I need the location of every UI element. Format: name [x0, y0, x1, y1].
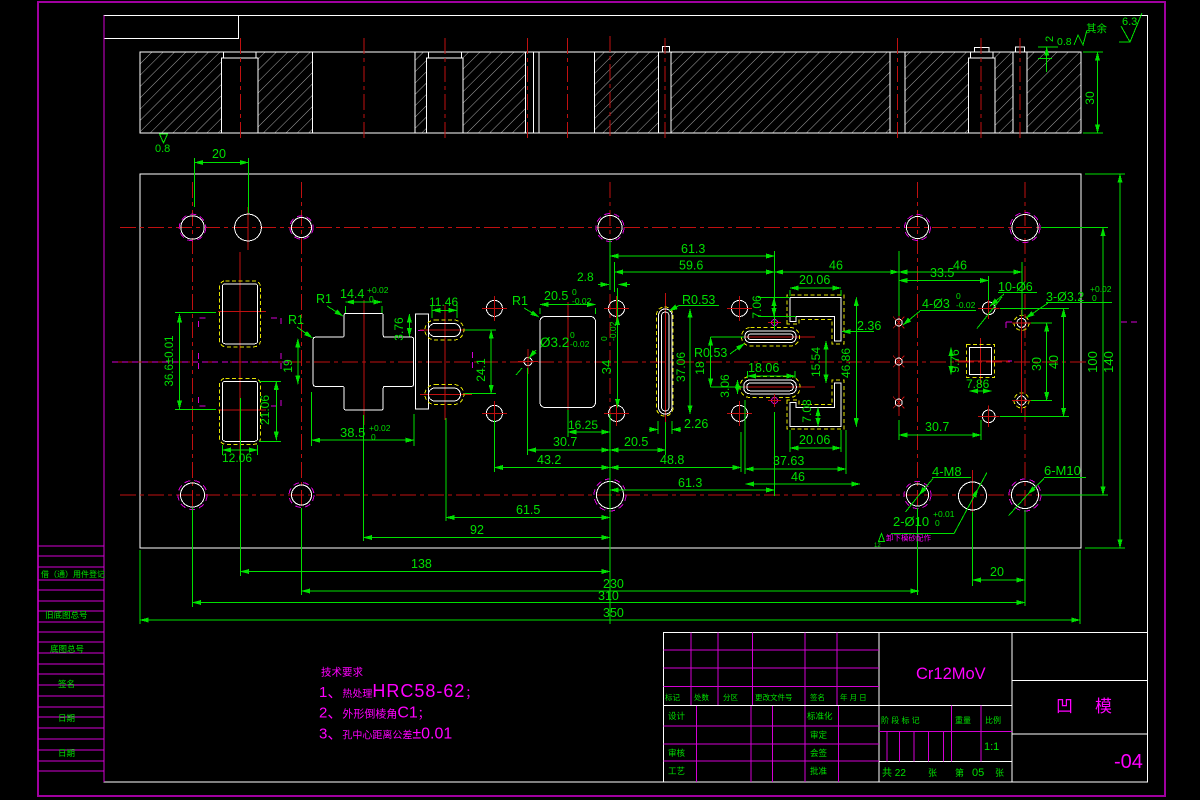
svg-text:R1: R1 — [316, 292, 332, 306]
dim 350 — [140, 606, 1080, 620]
svg-text:4-M8: 4-M8 — [932, 464, 962, 479]
dim 30 right col — [1030, 323, 1052, 401]
dim 30.7 right — [899, 420, 981, 440]
svg-text:Cr12MoV: Cr12MoV — [916, 665, 986, 683]
cross punch opening — [313, 313, 413, 410]
svg-text:6.3: 6.3 — [1122, 16, 1137, 28]
magenta phantom overlay on centerline left — [112, 361, 290, 363]
svg-text:61.3: 61.3 — [678, 476, 702, 490]
svg-text:9.76: 9.76 — [948, 349, 962, 373]
punch channel A (x240) — [222, 52, 259, 133]
svg-text:技术要求: 技术要求 — [321, 666, 363, 679]
left column vertical rule — [103, 16, 105, 783]
dim R0.53 mid — [694, 344, 745, 361]
punch channel G (x897) — [890, 52, 905, 133]
hatched regions — [140, 52, 1081, 133]
dim 16.25 — [568, 410, 610, 437]
vertical bar feature — [415, 314, 428, 409]
svg-text:签名: 签名 — [810, 692, 825, 702]
C bracket top — [787, 295, 844, 344]
small circle row C5 — [604, 401, 629, 426]
callout 3-Ø3.2 — [1026, 284, 1112, 318]
dim 14.4 +0.02 — [340, 285, 389, 313]
dim 7.86 — [966, 377, 992, 391]
callout 10-Ø6 — [990, 280, 1037, 306]
small circle row C6 — [727, 401, 752, 426]
svg-text:16.25: 16.25 — [568, 418, 598, 432]
svg-text:4-Ø3: 4-Ø3 — [922, 297, 950, 311]
svg-text:凹模: 凹模 — [1056, 697, 1134, 716]
dim 138 — [241, 557, 611, 572]
dim 230 — [302, 577, 920, 591]
svg-text:比例: 比例 — [985, 715, 1001, 725]
dim 7.08 — [800, 399, 818, 426]
svg-text:12.06: 12.06 — [222, 451, 252, 465]
svg-text:0: 0 — [371, 432, 376, 442]
dim 310 — [193, 589, 1026, 603]
svg-text:2.26: 2.26 — [684, 417, 708, 431]
svg-text:33.5: 33.5 — [930, 266, 954, 280]
svg-text:-04: -04 — [1114, 751, 1143, 773]
svg-text:R0.53: R0.53 — [694, 346, 727, 360]
label Ø3.2 0/-0.02 with leader — [516, 330, 590, 375]
hole B2 (301.5,495) — [289, 483, 314, 508]
svg-text:分区: 分区 — [723, 693, 738, 702]
svg-text:30.7: 30.7 — [925, 420, 949, 434]
svg-text:底图总号: 底图总号 — [50, 644, 84, 654]
G_TITLE : title block — [663, 633, 1147, 783]
hole B4 (917.5,495) — [904, 482, 931, 509]
small circle row C3 — [727, 296, 752, 321]
punch channel F (x665) with top plug — [659, 47, 672, 133]
svg-text:标记: 标记 — [665, 692, 680, 702]
hole F1 (1021.5,322.9) — [1012, 313, 1031, 332]
svg-text:24.1: 24.1 — [474, 358, 488, 382]
dim 2 top right — [1038, 36, 1058, 72]
svg-text:20: 20 — [212, 147, 226, 161]
dim 12.06 — [222, 445, 258, 465]
plan outline — [140, 174, 1081, 548]
tall slot — [657, 307, 674, 416]
dim 24.1 — [465, 330, 496, 393]
dim 61.5 — [446, 503, 610, 518]
dim 2.36 — [842, 319, 881, 333]
dim 36.6±0.01 — [164, 313, 216, 410]
svg-text:Ø3.2: Ø3.2 — [540, 335, 569, 350]
svg-text:签名: 签名 — [58, 679, 75, 689]
svg-text:40: 40 — [1047, 355, 1061, 369]
dim 48.8 — [610, 432, 741, 472]
dim 46.86 — [839, 298, 856, 427]
callout 2-Ø10 — [891, 473, 987, 534]
small circle row C2 — [604, 296, 629, 321]
hole A5 (917.5,225) — [905, 215, 931, 241]
svg-text:46.86: 46.86 — [839, 348, 853, 378]
G_LEFTCOL : left column boxes — [38, 16, 105, 783]
svg-text:61.5: 61.5 — [516, 503, 540, 517]
svg-text:30: 30 — [1030, 357, 1044, 371]
dim 30 right of section — [1083, 52, 1103, 133]
svg-text:阶 段 标 记: 阶 段 标 记 — [881, 715, 920, 725]
svg-text:处数: 处数 — [694, 692, 709, 702]
svg-text:旧底图总号: 旧底图总号 — [45, 610, 88, 620]
note 卸下模砂配作 — [874, 533, 931, 550]
dim 18.06 — [748, 361, 796, 378]
dim 100 — [1041, 228, 1108, 496]
svg-text:46: 46 — [829, 259, 843, 273]
svg-text:7.86: 7.86 — [966, 377, 990, 391]
svg-text:批准: 批准 — [810, 766, 828, 776]
svg-text:37.06: 37.06 — [674, 352, 688, 382]
svg-text:20.5: 20.5 — [624, 435, 648, 449]
svg-text:350: 350 — [603, 606, 624, 620]
left slot L2 — [220, 378, 261, 444]
oval slot O2 — [425, 385, 464, 405]
bottom row centerline — [120, 494, 1090, 496]
diamond hole D3 — [893, 397, 905, 409]
title block outline — [663, 633, 1147, 783]
callout 4-M8 — [906, 464, 972, 512]
svg-text:92: 92 — [470, 523, 484, 537]
dim 61.3 bottom — [610, 412, 775, 496]
svg-text:30: 30 — [1083, 91, 1097, 105]
svg-text:20.06: 20.06 — [799, 273, 830, 287]
center rectangle punch — [540, 317, 596, 408]
hole F2 (1021.5,400.5) — [1012, 391, 1031, 410]
main vertical dividers — [879, 633, 1012, 783]
svg-text:34: 34 — [599, 360, 614, 374]
svg-text:日期: 日期 — [58, 713, 75, 723]
dim 140 — [1085, 174, 1125, 548]
top row centerline — [120, 227, 1090, 229]
svg-text:30.7: 30.7 — [553, 435, 577, 449]
slot row centerlines — [218, 312, 1008, 411]
dim 43.2 — [494, 420, 610, 472]
svg-text:0.8: 0.8 — [155, 143, 170, 155]
dim 33.5 — [899, 266, 989, 300]
roughness 0.8 top right — [1057, 30, 1087, 48]
svg-text:3.06: 3.06 — [718, 374, 732, 398]
svg-text:更改文件号: 更改文件号 — [755, 692, 793, 702]
dim 61.3 top — [610, 242, 775, 256]
dim 11.46 — [429, 295, 458, 318]
roughness 0.8 below left — [155, 134, 170, 155]
svg-text:2.8: 2.8 — [577, 270, 594, 284]
svg-text:138: 138 — [411, 557, 432, 571]
hole A6 (1025,225) — [1010, 213, 1040, 243]
horizontal slot S2 — [740, 377, 800, 398]
C bracket bottom — [787, 380, 844, 429]
cavity channel E — [594, 52, 596, 133]
svg-text:其余: 其余 — [1086, 22, 1108, 35]
hole B5 (972.5,496) — [959, 482, 987, 510]
dim 34 0/-0.02 — [599, 288, 618, 407]
diamond hole D2 — [893, 356, 905, 368]
svg-text:05: 05 — [972, 767, 984, 779]
punch channel H (x981) with neck — [969, 48, 996, 134]
roughness 6.3 symbol — [1119, 13, 1142, 42]
svg-text:标准化: 标准化 — [807, 711, 833, 721]
hole B3 (610,495) — [594, 479, 626, 511]
svg-text:会签: 会签 — [810, 748, 828, 758]
svg-text:18.06: 18.06 — [748, 361, 779, 375]
dim 46 top first — [775, 251, 899, 330]
hole column centerlines — [193, 182, 1026, 540]
small rect punch right — [967, 345, 995, 378]
horizontal slot S1 — [742, 328, 800, 347]
dim 20.06 top — [790, 273, 841, 296]
dim 38.5 +0.02 — [312, 392, 415, 446]
svg-text:-0.02: -0.02 — [572, 296, 592, 306]
dim 9.76 — [948, 348, 962, 375]
svg-text:37.63: 37.63 — [773, 454, 804, 468]
svg-text:10-Ø6: 10-Ø6 — [998, 280, 1033, 294]
G_SECTION : top sectional view — [140, 13, 1142, 155]
dim 21.06 — [258, 381, 281, 441]
svg-text:R1: R1 — [512, 294, 528, 308]
svg-text:310: 310 — [598, 589, 619, 603]
label R1 c — [512, 294, 539, 317]
svg-text:R0.53: R0.53 — [682, 293, 715, 307]
middle dividers — [879, 705, 1012, 761]
small circle row C1 — [482, 296, 507, 321]
tiny circle T2 — [768, 394, 781, 407]
dim R0.53 top — [669, 293, 719, 311]
dim 20.5 0/-0.02 — [540, 287, 596, 314]
dim 15.54 — [809, 341, 826, 383]
dim 92 — [364, 523, 611, 538]
svg-text:设计: 设计 — [668, 711, 686, 721]
svg-text:3.76: 3.76 — [392, 317, 406, 341]
dim 2.8 — [577, 240, 630, 292]
svg-text:11.46: 11.46 — [429, 295, 458, 309]
svg-text:1:1: 1:1 — [984, 741, 999, 753]
dim 2.26 — [649, 417, 708, 434]
svg-text:36.6±0.01: 36.6±0.01 — [164, 335, 176, 386]
svg-text:46: 46 — [791, 470, 805, 484]
svg-text:100: 100 — [1085, 351, 1100, 373]
dim 37.63 — [745, 400, 846, 474]
svg-text:19: 19 — [281, 359, 295, 373]
dim 46 top second — [899, 259, 1022, 317]
svg-text:21.06: 21.06 — [258, 395, 272, 425]
svg-text:140: 140 — [1101, 351, 1116, 373]
svg-text:日期: 日期 — [58, 748, 75, 758]
G_DIMS : green dimensions — [140, 147, 1125, 624]
svg-text:张: 张 — [928, 768, 937, 778]
dim 20 bottom right — [973, 512, 1026, 586]
dim 59.6 — [615, 259, 775, 273]
hole E1 (988.7,308.3) — [978, 298, 1000, 320]
dim 30.7 — [528, 368, 611, 455]
svg-text:7.06: 7.06 — [750, 295, 764, 319]
punch channel C (x445) — [427, 52, 464, 133]
right column dividers — [1012, 681, 1148, 734]
svg-text:43.2: 43.2 — [537, 453, 561, 467]
dim 19 — [281, 339, 298, 384]
dim 3.76 — [392, 314, 409, 341]
dim 18 — [693, 337, 744, 387]
svg-text:卸下模砂配作: 卸下模砂配作 — [886, 533, 931, 543]
svg-text:7.08: 7.08 — [800, 399, 814, 423]
cavity channel B — [313, 52, 416, 133]
small circle row C4 — [482, 401, 507, 426]
oval slot O1 — [425, 320, 464, 340]
svg-text:年 月 日: 年 月 日 — [840, 692, 867, 702]
dim 20.5 right — [610, 422, 666, 455]
svg-text:工艺: 工艺 — [668, 766, 685, 776]
svg-text:6-M10: 6-M10 — [1044, 463, 1081, 478]
hole B6 (1025,495) — [1009, 479, 1041, 511]
left column horizontal rules — [38, 546, 104, 771]
hole A3 (301.5,225) — [290, 216, 313, 239]
svg-text:46: 46 — [953, 259, 967, 273]
svg-text:20.5: 20.5 — [544, 289, 568, 303]
magenta phantom dashes right — [998, 322, 1139, 361]
svg-text:重量: 重量 — [955, 715, 971, 725]
svg-text:20: 20 — [990, 565, 1004, 579]
main horizontal centerline — [118, 361, 1090, 363]
svg-text:61.3: 61.3 — [681, 242, 705, 256]
svg-text:借（通）用件登记: 借（通）用件登记 — [41, 569, 105, 579]
svg-text:14.4: 14.4 — [340, 287, 364, 301]
dim 20 top left — [195, 147, 249, 213]
punch channel I (x1020) with plug — [1013, 47, 1027, 133]
svg-text:R1: R1 — [288, 313, 304, 327]
G_PLAN : main plan view — [112, 174, 1139, 548]
top-left accessory strip — [104, 16, 239, 39]
tiny circle T1 — [768, 316, 781, 329]
svg-text:-0.02: -0.02 — [570, 339, 590, 349]
hole A2 (247.5,225) — [235, 214, 262, 241]
svg-text:0.8: 0.8 — [1057, 36, 1072, 48]
svg-text:2-Ø10: 2-Ø10 — [893, 514, 929, 529]
svg-text:12: 12 — [874, 543, 881, 549]
svg-text:-0.02: -0.02 — [608, 321, 618, 341]
svg-text:审核: 审核 — [668, 748, 686, 758]
label R1 a — [316, 292, 343, 316]
short centerlines — [240, 207, 1022, 520]
svg-text:20.06: 20.06 — [799, 433, 830, 447]
dim 40 right col — [1000, 308, 1069, 416]
svg-text:18: 18 — [693, 361, 707, 375]
left revision grid magenta — [663, 650, 878, 761]
dim 20.06 bottom — [790, 430, 841, 452]
svg-text:0: 0 — [369, 294, 374, 304]
left grid white divider — [663, 704, 878, 706]
hole B1 (192.5,495) — [178, 481, 207, 510]
svg-text:-0.02: -0.02 — [956, 300, 976, 310]
section plate outline — [140, 52, 1081, 133]
svg-text:第: 第 — [955, 767, 964, 778]
svg-text:3-Ø3.2: 3-Ø3.2 — [1046, 290, 1084, 304]
svg-text:59.6: 59.6 — [679, 259, 703, 273]
bottom extension lines — [140, 398, 1080, 624]
svg-text:38.5: 38.5 — [340, 425, 365, 440]
magenta phantom dashes cross area — [418, 331, 472, 373]
hole A4 (610,225) — [596, 214, 624, 242]
callout 4-Ø3 — [903, 291, 1002, 329]
diamond hole D1 — [893, 317, 905, 329]
svg-text:2: 2 — [1044, 36, 1056, 42]
svg-text:48.8: 48.8 — [660, 453, 684, 467]
dim 37.06 — [674, 309, 690, 414]
label R1 b — [288, 313, 313, 338]
callout 6-M10 — [1009, 463, 1086, 516]
svg-text:15.54: 15.54 — [809, 347, 823, 377]
dim 3.06 — [718, 374, 738, 398]
small hole phi3.2 — [524, 358, 532, 366]
svg-text:审定: 审定 — [810, 730, 828, 740]
svg-text:张: 张 — [995, 768, 1004, 778]
svg-text:2.36: 2.36 — [857, 319, 881, 333]
dim 7.06 — [750, 295, 796, 319]
hole E2 (988.7,416.3) — [978, 406, 1000, 428]
dim 46 bottom — [746, 470, 861, 484]
svg-text:0: 0 — [935, 518, 940, 528]
hole A1 (192.5,225) — [179, 214, 206, 241]
svg-text:共 22: 共 22 — [882, 767, 906, 779]
section centerlines — [241, 36, 1021, 140]
narrow channels D — [525, 52, 539, 133]
G_NOTES : technical notes — [319, 666, 477, 743]
left slot L1 — [220, 281, 261, 347]
svg-text:0: 0 — [1092, 293, 1097, 303]
